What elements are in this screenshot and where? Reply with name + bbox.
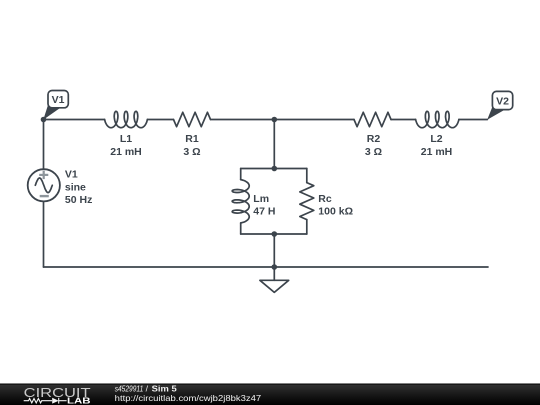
voltage source V1 minus sign (40, 195, 49, 197)
junction dot at parallel top rail (272, 166, 278, 172)
wire top rail of parallel section (241, 168, 307, 170)
wire Rc bottom lead (306, 220, 308, 234)
junction dot at parallel bottom rail (272, 231, 278, 237)
node V1 flag box (48, 91, 68, 108)
svg-text:47 H: 47 H (253, 205, 275, 217)
svg-text:Rc: Rc (318, 193, 332, 205)
svg-text:Lm: Lm (253, 193, 269, 205)
voltage source V1 circle (28, 169, 60, 201)
ground symbol triangle (260, 280, 289, 292)
wire parallel section to ground rail (273, 234, 275, 267)
svg-text:3 Ω: 3 Ω (365, 146, 382, 158)
svg-text:LAB: LAB (67, 396, 91, 405)
svg-text:R2: R2 (367, 133, 381, 145)
wire L2 to node V2 (459, 119, 488, 121)
inductor L2 (416, 111, 459, 127)
inductor L1 (105, 111, 148, 127)
svg-text:sine: sine (65, 181, 86, 193)
svg-text:Sim 5: Sim 5 (152, 383, 177, 393)
node V2 flag pointer (487, 106, 503, 120)
svg-text:50 Hz: 50 Hz (65, 194, 92, 206)
wire Lm bottom lead (240, 223, 242, 234)
resistor R1 (174, 112, 211, 126)
wire bottom rail (44, 266, 489, 268)
voltage source V1 plus sign (39, 171, 48, 179)
svg-text:21 mH: 21 mH (110, 146, 142, 158)
junction dot at node V1 (41, 117, 47, 123)
resistor R2 (354, 112, 391, 126)
junction dot at ground rail (272, 264, 278, 270)
wire Lm top lead (240, 169, 242, 180)
wire left branch down to source V1 (43, 120, 45, 170)
resistor Rc (300, 183, 314, 220)
svg-text:V2: V2 (496, 95, 509, 107)
svg-text:21 mH: 21 mH (421, 146, 453, 158)
svg-text:R1: R1 (185, 133, 199, 145)
svg-text:100 kΩ: 100 kΩ (318, 205, 353, 217)
wire bottom rail of parallel section (241, 233, 307, 235)
svg-text:L2: L2 (430, 133, 442, 145)
node V1 flag pointer (43, 106, 59, 120)
svg-text:V1: V1 (52, 94, 65, 106)
svg-text:3 Ω: 3 Ω (183, 146, 200, 158)
wire top-left from node V1 to L1 (44, 119, 105, 121)
svg-text:s4529911: s4529911 (115, 383, 144, 393)
node V2 flag box (492, 91, 512, 109)
wire source V1 to bottom rail (43, 201, 45, 267)
svg-text:L1: L1 (120, 133, 132, 145)
footer logo schematic squiggle (24, 398, 67, 404)
wire Rc top lead (306, 169, 308, 183)
voltage source V1 sine symbol (35, 178, 52, 193)
ground symbol stub (273, 267, 275, 280)
inductor Lm (232, 180, 249, 223)
wire R1 to center node (211, 119, 275, 121)
wire L1 to R1 (147, 119, 173, 121)
svg-text:V1: V1 (65, 169, 78, 181)
wire center node down to parallel section (273, 120, 275, 169)
svg-text:http://circuitlab.com/cwjb2j8b: http://circuitlab.com/cwjb2j8bk3z47 (115, 393, 262, 403)
wire center node to R2 (274, 119, 354, 121)
junction dot at center top node (272, 117, 278, 123)
wire R2 to L2 (391, 119, 416, 121)
